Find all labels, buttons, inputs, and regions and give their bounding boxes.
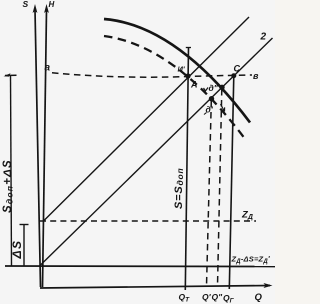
point A dot (185, 73, 190, 78)
point d'' dot (curve 1 x line 2) (219, 85, 224, 90)
line a-b dashed horizontal (52, 73, 252, 77)
vertical line S=Sdop at QT (185, 47, 188, 290)
dashed demand curve (shifted by dS) (104, 36, 246, 140)
arrowhead H axis (44, 4, 49, 13)
diagonal D0 line 2 through C (40, 38, 273, 266)
point C dot (231, 73, 236, 78)
curve 1 solid demand curve (104, 19, 250, 123)
svg-text:2: 2 (260, 32, 267, 43)
vertical line QG solid from C (229, 76, 234, 290)
label d'' with check arrow (204, 88, 209, 92)
dashed vertical Q' (207, 101, 212, 286)
bracket dS (23, 225, 25, 267)
long bracket Sdop+dS left (11, 76, 12, 267)
svg-text:S=Sдоп: S=Sдоп (173, 167, 185, 209)
svg-text:Q: Q (255, 292, 263, 303)
svg-text:д": д" (209, 83, 219, 93)
axis Q horizontal line (40, 286, 270, 289)
arrowhead S axis (33, 4, 38, 13)
svg-text:Q": Q" (212, 292, 224, 302)
line ZD-dS level (solid horizontal Z'D) (5, 265, 275, 268)
svg-text:в: в (253, 71, 259, 81)
diagonal D1 45-degree line through A (44, 17, 250, 221)
axis S vertical line (35, 10, 41, 287)
point d' dot (dashed curve x line 2) (209, 96, 214, 101)
svg-text:а: а (45, 63, 51, 74)
line ZD dashed horizontal (40, 220, 256, 222)
svg-text:S: S (23, 0, 29, 9)
small arrow near Q'' top (221, 104, 225, 112)
dashed vertical Q'' (218, 89, 222, 286)
svg-text:A: A (190, 80, 198, 90)
svg-text:Q': Q' (202, 292, 212, 302)
svg-text:Sдоп+ΔS: Sдоп+ΔS (2, 159, 15, 213)
svg-text:ΔS: ΔS (10, 239, 24, 259)
svg-text:И': И' (178, 65, 185, 74)
axis H vertical line (43, 10, 47, 287)
svg-text:H: H (49, 0, 55, 9)
svg-text:C: C (234, 64, 241, 74)
arrowhead Q axis (264, 283, 273, 288)
